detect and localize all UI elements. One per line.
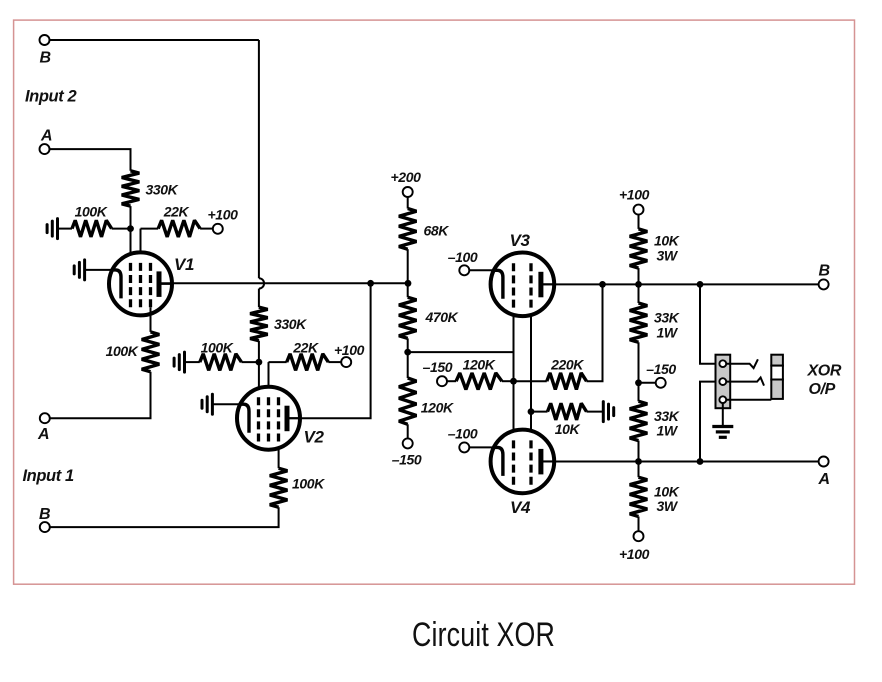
svg-text:3W: 3W bbox=[657, 498, 679, 514]
wire node to V1 g1 bbox=[130, 229, 132, 263]
junction connector join A bbox=[697, 458, 704, 465]
tube V2 envelope bbox=[237, 387, 300, 450]
wire B to jack tip bbox=[700, 284, 716, 363]
junction chain join B bbox=[635, 281, 642, 288]
svg-text:V3: V3 bbox=[510, 231, 531, 250]
wire 22K to +100 bbox=[328, 361, 341, 363]
wire 100K to node bbox=[241, 361, 259, 363]
svg-text:–100: –100 bbox=[448, 249, 478, 265]
terminal -100 (V4) bbox=[459, 442, 469, 452]
terminal B input 1 bbox=[40, 522, 50, 532]
tube V3 grid 1 (dashed) bbox=[512, 263, 515, 307]
jack contact ring bbox=[719, 378, 726, 385]
tube V2 anode plate bbox=[285, 406, 290, 432]
svg-text:+100: +100 bbox=[619, 546, 650, 562]
svg-text:V1: V1 bbox=[174, 255, 194, 274]
svg-text:100K: 100K bbox=[292, 476, 325, 492]
svg-text:Input 2: Input 2 bbox=[25, 88, 76, 106]
wire -100 to V4 cathode bbox=[469, 446, 494, 448]
wire 68K to 470K bbox=[407, 249, 409, 297]
terminal +100 (bottom right) bbox=[634, 531, 644, 541]
tube V4 cathode bbox=[493, 447, 503, 476]
tube V1 grid 3 (dashed) bbox=[149, 263, 152, 307]
resistor R 10K 3W (bottom) bbox=[630, 477, 648, 516]
svg-text:Circuit XOR: Circuit XOR bbox=[412, 616, 555, 654]
junction g2 bus node bbox=[528, 408, 535, 415]
wire node to V2 g1 bbox=[258, 362, 260, 397]
junction chain join A bbox=[635, 458, 642, 465]
wire B output line bbox=[541, 283, 819, 285]
jack plug upper (gray) bbox=[771, 355, 783, 366]
jack plug middle (white) bbox=[771, 366, 783, 380]
wire sleeve to plug bbox=[726, 399, 771, 401]
tube V4 anode plate bbox=[538, 449, 543, 475]
svg-text:+100: +100 bbox=[619, 187, 650, 203]
terminal +100 (top right) bbox=[634, 205, 644, 215]
svg-text:68K: 68K bbox=[424, 222, 450, 238]
svg-text:B: B bbox=[39, 506, 50, 523]
resistor R 68K bbox=[399, 209, 417, 250]
wire crossover hop bbox=[259, 278, 264, 288]
ground (100K V1 row) bbox=[47, 219, 57, 239]
wire stub to -150 bbox=[639, 382, 656, 384]
svg-text:10K: 10K bbox=[654, 484, 680, 500]
svg-text:–100: –100 bbox=[448, 425, 478, 441]
svg-text:A: A bbox=[818, 471, 830, 488]
svg-text:B: B bbox=[40, 50, 51, 67]
wire gnd to 100K bbox=[185, 361, 200, 363]
ground (V1 cathode) bbox=[74, 260, 84, 280]
resistor R 120K (grid) bbox=[456, 373, 502, 390]
tube V3 anode plate bbox=[538, 272, 543, 298]
wire B input1 wire bbox=[50, 507, 279, 527]
resistor R 330K (V1 grid) bbox=[122, 171, 140, 206]
wire node to 220K bbox=[514, 380, 547, 382]
tube V1 grid 1 (dashed) bbox=[129, 263, 132, 307]
wire V2 anode riser bbox=[287, 283, 371, 418]
wire gnd to V1 cathode bbox=[85, 269, 113, 271]
terminal +100 (V1 screen) bbox=[213, 224, 223, 234]
junction anode line join bbox=[367, 280, 374, 287]
wire -150 to 120K bbox=[447, 380, 456, 382]
wire +200 to 68K bbox=[407, 197, 409, 208]
wire g2 to 22K bbox=[269, 361, 287, 363]
svg-text:V2: V2 bbox=[304, 428, 325, 447]
terminal A input 2 bbox=[40, 144, 50, 154]
svg-text:+200: +200 bbox=[391, 169, 422, 185]
terminal B input 2 bbox=[40, 35, 50, 45]
tube V1 anode plate bbox=[157, 271, 162, 297]
wire gnd to V2 cathode bbox=[212, 403, 241, 405]
wire 33K to 33K bbox=[638, 342, 640, 401]
resistor R 100K (V2 grid leak) bbox=[200, 354, 242, 371]
tube V2 grid 1 (dashed) bbox=[257, 397, 260, 441]
jack contact sleeve bbox=[719, 396, 726, 403]
svg-text:A: A bbox=[37, 426, 49, 443]
wire B input2 horizontal bbox=[50, 39, 259, 41]
resistor R 330K (V2 grid) bbox=[250, 307, 268, 341]
svg-text:10K: 10K bbox=[654, 232, 680, 248]
wire 10K to B line bbox=[638, 268, 640, 303]
junction connector join B bbox=[697, 281, 704, 288]
tube V3 cathode bbox=[493, 270, 503, 299]
resistor R 33K 1W (upper) bbox=[630, 303, 648, 342]
svg-text:120K: 120K bbox=[463, 356, 496, 372]
wire 120K to grid node bbox=[502, 380, 514, 382]
tube V3 grid 2 (dashed) bbox=[529, 263, 532, 307]
ground (V2 cathode) bbox=[202, 394, 212, 414]
tube V4 envelope bbox=[491, 430, 555, 494]
wire g2 to 22K bbox=[141, 228, 159, 230]
wire 330K to node bbox=[130, 206, 132, 229]
resistor R 100K (below V1) bbox=[142, 332, 160, 372]
wire V1 g3 down bbox=[150, 307, 152, 332]
resistor R 22K (V1 screen) bbox=[158, 220, 200, 237]
resistor R 22K (V2 screen) bbox=[287, 354, 329, 371]
svg-text:330K: 330K bbox=[146, 181, 179, 197]
wire 120K to -150 bbox=[407, 424, 409, 438]
resistor R 10K (grid2) bbox=[548, 403, 587, 420]
jack plug lower (gray) bbox=[771, 380, 783, 399]
resistor R 33K 1W (lower) bbox=[630, 401, 648, 440]
svg-text:+100: +100 bbox=[208, 207, 239, 223]
svg-text:33K: 33K bbox=[654, 408, 680, 424]
wire -100 to V3 cathode bbox=[469, 269, 494, 271]
resistor R 100K (V1 grid leak) bbox=[72, 220, 112, 237]
terminal -150 (120K row) bbox=[437, 376, 447, 386]
jack socket body bbox=[716, 355, 731, 409]
svg-text:B: B bbox=[819, 263, 830, 280]
svg-text:1W: 1W bbox=[657, 423, 679, 439]
wire 22K to +100 bbox=[200, 228, 213, 230]
svg-text:XOR: XOR bbox=[807, 363, 842, 380]
svg-text:120K: 120K bbox=[421, 399, 454, 415]
tube V2 grid 2 (dashed) bbox=[267, 397, 270, 441]
svg-text:100K: 100K bbox=[201, 339, 234, 355]
svg-text:A: A bbox=[40, 128, 52, 145]
svg-text:10K: 10K bbox=[555, 421, 581, 437]
wire V1 g2 riser bbox=[140, 229, 142, 263]
svg-text:22K: 22K bbox=[163, 204, 190, 220]
ground (100K V2 row) bbox=[174, 352, 184, 372]
resistor R 120K (divider) bbox=[399, 378, 417, 424]
wire divider to V3 grid bbox=[408, 351, 514, 353]
svg-text:–150: –150 bbox=[423, 359, 453, 375]
junction g1 bus node bbox=[510, 378, 517, 385]
ground (10K row) bbox=[603, 402, 613, 422]
terminal +100 (V2 screen) bbox=[341, 357, 351, 367]
wire A output line bbox=[541, 461, 819, 463]
ground (jack sleeve) bbox=[712, 427, 733, 438]
wire B input2 vertical to 330K bbox=[258, 289, 260, 308]
tube V1 envelope bbox=[109, 252, 172, 315]
wire A to jack ring bbox=[700, 382, 716, 462]
terminal A output bbox=[819, 457, 829, 467]
wire 330K to node bbox=[258, 341, 260, 362]
wire 33K to A line bbox=[638, 441, 640, 478]
svg-text:–150: –150 bbox=[646, 361, 676, 377]
resistor R 220K bbox=[547, 373, 587, 390]
junction V2 grid node bbox=[256, 359, 263, 366]
jack contact tip bbox=[719, 360, 726, 367]
svg-text:3W: 3W bbox=[657, 248, 679, 264]
wire 10K to +100 bbox=[638, 517, 640, 532]
wire to A input1 bbox=[50, 372, 151, 418]
terminal -150 (right) bbox=[656, 378, 666, 388]
wire 100K to node bbox=[112, 228, 131, 230]
svg-text:1W: 1W bbox=[657, 325, 679, 341]
svg-text:22K: 22K bbox=[292, 339, 319, 355]
tube V3 envelope bbox=[491, 252, 555, 316]
terminal B output bbox=[819, 279, 829, 289]
wire V1 anode line bbox=[159, 282, 408, 284]
svg-text:100K: 100K bbox=[106, 343, 139, 359]
svg-text:330K: 330K bbox=[274, 316, 307, 332]
svg-text:O/P: O/P bbox=[809, 381, 836, 398]
junction 470K-120K node bbox=[404, 349, 411, 356]
svg-text:470K: 470K bbox=[425, 309, 459, 325]
tube V2 cathode bbox=[240, 404, 250, 433]
switch contact (tip) bbox=[726, 359, 758, 368]
terminal A input 1 bbox=[40, 413, 50, 423]
wire 10K to gnd bbox=[587, 411, 604, 413]
wire node to 10K bbox=[531, 411, 548, 413]
wire A input2 to 330K bbox=[50, 149, 131, 171]
tube V4 grid 1 (dashed) bbox=[512, 440, 515, 484]
junction V1 grid node bbox=[127, 225, 134, 232]
resistor R 470K bbox=[399, 297, 417, 338]
schematic frame bbox=[14, 20, 855, 584]
svg-text:–150: –150 bbox=[392, 451, 422, 467]
svg-text:100K: 100K bbox=[75, 204, 108, 220]
switch contact (ring) bbox=[726, 378, 764, 386]
resistor R 10K 3W (top) bbox=[630, 229, 648, 268]
tube V1 grid 2 (dashed) bbox=[139, 263, 142, 307]
wire V2 g2 riser bbox=[268, 362, 270, 397]
tube V2 grid 3 (dashed) bbox=[277, 397, 280, 441]
wire sleeve to ground bbox=[722, 403, 724, 425]
terminal -150 (divider) bbox=[403, 438, 413, 448]
terminal -100 (V3) bbox=[459, 265, 469, 275]
terminal +200 bbox=[403, 187, 413, 197]
wire g2 bus V3-V4 bbox=[530, 308, 532, 441]
svg-text:220K: 220K bbox=[550, 357, 584, 373]
wire 220K riser to B line bbox=[587, 284, 603, 381]
junction -150 node right bbox=[635, 379, 642, 386]
wire B input2 vertical upper bbox=[258, 40, 260, 278]
wire +100 to 10K bbox=[638, 215, 640, 229]
junction 220K riser join bbox=[599, 281, 606, 288]
svg-text:Input 1: Input 1 bbox=[23, 467, 74, 485]
wire 470K to 120K bbox=[407, 338, 409, 378]
wire g1 bus V3-V4 bbox=[513, 308, 515, 441]
wire gnd to 100K bbox=[58, 228, 73, 230]
tube V4 grid 2 (dashed) bbox=[529, 440, 532, 484]
resistor R 100K (below V2) bbox=[270, 468, 288, 507]
tube V1 cathode bbox=[112, 270, 122, 299]
junction 68K-470K node bbox=[405, 280, 412, 287]
svg-text:V4: V4 bbox=[510, 498, 531, 517]
svg-text:+100: +100 bbox=[334, 342, 365, 358]
svg-text:33K: 33K bbox=[654, 310, 680, 326]
wire 100K to V2 bbox=[278, 442, 280, 469]
